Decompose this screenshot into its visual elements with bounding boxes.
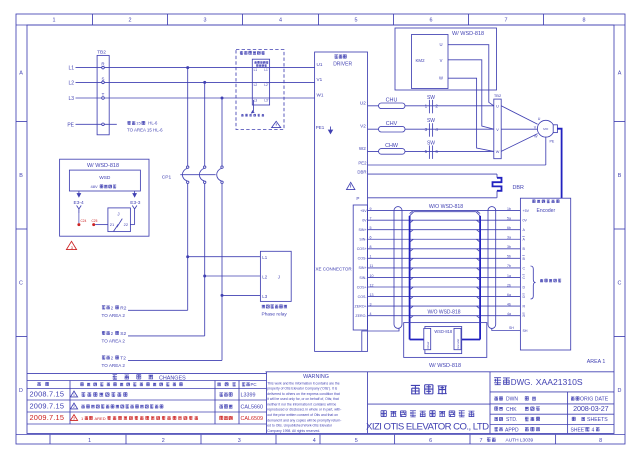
svg-text:CP1: CP1 bbox=[162, 174, 172, 180]
svg-text:CHV: CHV bbox=[386, 121, 398, 127]
optional line filter (dashed option box) bbox=[236, 50, 284, 130]
wire KM2 U to TB2 bbox=[448, 45, 494, 106]
svg-text:8: 8 bbox=[599, 438, 602, 444]
revision marker 3 (red triangle) bbox=[66, 241, 76, 249]
svg-text:1: 1 bbox=[81, 416, 84, 421]
svg-text:4b: 4b bbox=[507, 302, 511, 306]
svg-text:L2: L2 bbox=[254, 83, 258, 87]
relay contact J (21-22) bbox=[108, 208, 130, 232]
svg-text:CAL5660: CAL5660 bbox=[241, 405, 263, 411]
svg-text:C: C bbox=[523, 266, 526, 270]
svg-text:2008-03-27: 2008-03-27 bbox=[573, 404, 608, 413]
wire tap to phase relay L1 bbox=[186, 255, 189, 258]
title block: drawing number XAA21310S bbox=[489, 372, 491, 434]
svg-text:5b: 5b bbox=[507, 255, 511, 259]
svg-text:2: 2 bbox=[73, 405, 75, 409]
svg-text:WARNING: WARNING bbox=[303, 374, 329, 380]
svg-text:0V: 0V bbox=[523, 219, 528, 223]
svg-text:SIN-: SIN- bbox=[359, 238, 367, 242]
svg-text:B: B bbox=[618, 173, 622, 179]
svg-text:4: 4 bbox=[279, 18, 282, 24]
svg-text:1: 1 bbox=[88, 438, 91, 444]
net S2 to area 2 bbox=[128, 335, 205, 337]
svg-text:demand it and any copies will: demand it and any copies will be promptl… bbox=[267, 418, 341, 422]
wire SH (shield) to encoder bbox=[492, 328, 521, 330]
svg-text:KM2: KM2 bbox=[416, 58, 426, 63]
svg-text:2: 2 bbox=[111, 305, 114, 310]
svg-text:DBR: DBR bbox=[513, 185, 524, 191]
svg-text:W/O WSD-818: W/O WSD-818 bbox=[429, 204, 463, 210]
svg-text:SIN-: SIN- bbox=[359, 276, 367, 280]
svg-text:DWN: DWN bbox=[506, 397, 518, 403]
plug symbols E3-4 E3-3 bbox=[77, 206, 82, 214]
W/ WSD-818 option box (KM2) bbox=[395, 28, 497, 90]
svg-text:C: C bbox=[523, 276, 526, 280]
svg-text:SH: SH bbox=[509, 326, 514, 330]
svg-text:B: B bbox=[523, 247, 526, 251]
connector WSD-818 (option) bbox=[404, 323, 487, 358]
svg-text:2b: 2b bbox=[507, 283, 511, 287]
svg-text:L3: L3 bbox=[254, 99, 258, 103]
CP1 linkage bar bbox=[180, 174, 215, 176]
svg-text:+5V: +5V bbox=[360, 209, 367, 213]
svg-text:CHU: CHU bbox=[386, 97, 398, 103]
svg-text:B: B bbox=[19, 173, 23, 179]
net T2 to area 2 bbox=[128, 359, 222, 361]
cable sheath (left) bbox=[394, 207, 402, 329]
svg-text:DBR: DBR bbox=[357, 169, 366, 174]
svg-text:Encoder: Encoder bbox=[537, 208, 556, 214]
svg-text:V: V bbox=[440, 58, 443, 63]
svg-text:5: 5 bbox=[355, 18, 358, 24]
svg-text:WSD-818: WSD-818 bbox=[434, 329, 452, 334]
svg-text:COS-: COS- bbox=[358, 295, 368, 299]
svg-text:ZERO+: ZERO+ bbox=[355, 304, 367, 308]
svg-text:6: 6 bbox=[435, 149, 438, 154]
svg-text:4: 4 bbox=[435, 127, 438, 132]
svg-text:B: B bbox=[523, 257, 526, 261]
svg-text:E3-3: E3-3 bbox=[130, 200, 140, 206]
phase relay J bbox=[260, 251, 291, 301]
svg-text:CAL6509: CAL6509 bbox=[241, 416, 263, 422]
svg-text:PE2: PE2 bbox=[358, 161, 367, 166]
svg-text:XAA21310S: XAA21310S bbox=[536, 377, 583, 387]
warning triangle (filter) bbox=[272, 121, 281, 127]
svg-text:C24: C24 bbox=[81, 219, 87, 223]
svg-text:STD.: STD. bbox=[506, 417, 517, 423]
svg-text:WSD: WSD bbox=[99, 175, 111, 181]
svg-text:W: W bbox=[439, 76, 443, 81]
signal arrows to E3-4 / E3-3 bbox=[78, 191, 80, 195]
svg-text:TO AREA 15 HL-6: TO AREA 15 HL-6 bbox=[127, 127, 163, 132]
svg-text:U: U bbox=[538, 117, 541, 121]
svg-text:reproduced or disclosed, in wh: reproduced or disclosed, in whole or in … bbox=[267, 408, 341, 412]
svg-text:2009.7.15: 2009.7.15 bbox=[30, 413, 65, 422]
svg-text:W/ WSD-818: W/ WSD-818 bbox=[87, 163, 119, 169]
svg-text:out the prior written consent: out the prior written consent of Otis an… bbox=[267, 413, 338, 417]
svg-text:TO AREA 2: TO AREA 2 bbox=[102, 313, 126, 318]
svg-text:6a: 6a bbox=[507, 293, 511, 297]
wire motor PE bbox=[545, 137, 547, 165]
svg-text:P: P bbox=[356, 196, 359, 201]
braking resistor DBR bbox=[496, 174, 498, 178]
svg-text:C: C bbox=[19, 281, 23, 287]
svg-text:COS-: COS- bbox=[358, 257, 368, 261]
svg-text:2: 2 bbox=[111, 331, 114, 336]
svg-text:E3-4: E3-4 bbox=[74, 200, 84, 206]
svg-text:3: 3 bbox=[238, 438, 241, 444]
svg-text:2008.7.15: 2008.7.15 bbox=[30, 390, 65, 399]
svg-text:2: 2 bbox=[162, 438, 165, 444]
W/ WSD-818 option box bbox=[60, 159, 149, 236]
svg-text:C25: C25 bbox=[92, 219, 98, 223]
svg-text:SW: SW bbox=[427, 140, 435, 146]
svg-text:L1: L1 bbox=[262, 255, 267, 260]
svg-text:CHANGES: CHANGES bbox=[159, 376, 186, 382]
svg-text:U: U bbox=[496, 104, 499, 108]
svg-text:3b: 3b bbox=[507, 245, 511, 249]
WSD unit (48V charge signal) bbox=[69, 170, 140, 191]
svg-text:5: 5 bbox=[355, 438, 358, 444]
svg-text:D: D bbox=[19, 388, 23, 394]
svg-text:22: 22 bbox=[124, 222, 129, 227]
svg-text:PE1: PE1 bbox=[316, 125, 325, 130]
encoder (sin/cos) bbox=[520, 198, 570, 350]
connector XE (encoder connector) bbox=[353, 205, 367, 330]
wire tap to phase relay L2 bbox=[203, 275, 206, 278]
svg-text:L2': L2' bbox=[264, 83, 269, 87]
contactor CP1 pole 2 and wire bbox=[204, 82, 206, 165]
svg-text:TO AREA 2: TO AREA 2 bbox=[102, 339, 126, 344]
svg-text:PC: PC bbox=[251, 382, 257, 387]
encoder extension cable W/O WSD-818 (shield box) bbox=[414, 211, 476, 213]
changes table bbox=[27, 372, 267, 374]
inverter drive U1 (DRIVER) bbox=[315, 52, 368, 351]
svg-text:L2: L2 bbox=[262, 275, 267, 280]
svg-text:HL-6: HL-6 bbox=[148, 121, 158, 126]
svg-text:COS+: COS+ bbox=[357, 247, 367, 251]
svg-text:COS+: COS+ bbox=[357, 285, 367, 289]
svg-text:D: D bbox=[523, 295, 526, 299]
encoder cable from motor (shielded) bbox=[557, 129, 561, 199]
svg-text:4: 4 bbox=[592, 427, 595, 433]
svg-text:W2: W2 bbox=[359, 146, 366, 151]
motor MO bbox=[537, 120, 554, 137]
svg-text:R: R bbox=[523, 305, 526, 309]
svg-text:SHEETS: SHEETS bbox=[587, 417, 608, 423]
svg-text:W/O WSD-818: W/O WSD-818 bbox=[427, 309, 460, 315]
svg-text:delivered to others on the exp: delivered to others on the express condi… bbox=[267, 392, 340, 396]
wire KM2 V to TB2 bbox=[448, 60, 494, 129]
warning triangle (driver) bbox=[347, 182, 355, 189]
svg-text:PE: PE bbox=[550, 140, 555, 144]
svg-text:L3399: L3399 bbox=[241, 393, 256, 399]
svg-text:W1: W1 bbox=[317, 93, 324, 98]
svg-text:L1: L1 bbox=[68, 66, 74, 72]
svg-text:SW: SW bbox=[427, 118, 435, 124]
svg-text:L3: L3 bbox=[68, 96, 74, 102]
brace: pins C C D D for positioning bbox=[531, 266, 536, 299]
svg-text:ZERO-: ZERO- bbox=[355, 314, 367, 318]
svg-text:property of Otis Elevator Comp: property of Otis Elevator Company ('Otis… bbox=[267, 387, 337, 391]
contactor CP1 pole 3 and wire bbox=[221, 98, 223, 166]
svg-text:8: 8 bbox=[583, 18, 586, 24]
svg-text:7b: 7b bbox=[507, 264, 511, 268]
svg-text:6: 6 bbox=[429, 438, 432, 444]
svg-text:A: A bbox=[618, 71, 622, 77]
svg-text:5: 5 bbox=[425, 149, 428, 154]
svg-text:neither it nor the information: neither it nor the information it contai… bbox=[267, 402, 336, 406]
svg-text:R: R bbox=[101, 62, 104, 67]
svg-text:SH: SH bbox=[523, 329, 528, 333]
svg-text:3: 3 bbox=[204, 18, 207, 24]
wire tap to phase relay L3 bbox=[221, 294, 224, 297]
svg-text:APPD: APPD bbox=[505, 427, 519, 433]
filter ground lead bbox=[252, 100, 254, 113]
svg-text:2009.7.15: 2009.7.15 bbox=[30, 402, 65, 411]
svg-text:J: J bbox=[278, 275, 280, 280]
net R2 to area 2 bbox=[128, 309, 188, 311]
svg-text:C: C bbox=[618, 281, 622, 287]
svg-text:L3: L3 bbox=[262, 294, 267, 299]
svg-text:XIZI OTIS ELEVATOR CO., LTD: XIZI OTIS ELEVATOR CO., LTD bbox=[366, 421, 489, 432]
svg-text:V: V bbox=[496, 128, 499, 132]
wire KM2 W to TB2 bbox=[448, 78, 494, 151]
title block: drawing title and company bbox=[368, 403, 491, 405]
svg-text:3: 3 bbox=[73, 417, 75, 421]
svg-text:TO AREA 2: TO AREA 2 bbox=[102, 363, 126, 368]
svg-text:7: 7 bbox=[480, 438, 483, 444]
EMC filter FLT L1-L3 pass-through bbox=[252, 59, 269, 105]
svg-text:SW: SW bbox=[427, 95, 435, 101]
svg-text:4a: 4a bbox=[507, 312, 511, 316]
svg-text:TB2: TB2 bbox=[97, 50, 106, 56]
svg-text:TB2: TB2 bbox=[494, 93, 502, 98]
svg-text:2: 2 bbox=[111, 355, 114, 360]
svg-text:3: 3 bbox=[425, 127, 428, 132]
svg-text:4: 4 bbox=[313, 438, 316, 444]
svg-text:W/ WSD-818: W/ WSD-818 bbox=[452, 31, 484, 37]
svg-text:MO: MO bbox=[543, 127, 549, 131]
svg-text:L2: L2 bbox=[68, 80, 74, 86]
svg-text:ORIG DATE: ORIG DATE bbox=[580, 397, 609, 403]
svg-text:1a: 1a bbox=[507, 274, 511, 278]
warning notice block bbox=[266, 371, 615, 373]
svg-text:ARED: ARED bbox=[95, 416, 106, 421]
svg-text:6: 6 bbox=[430, 18, 433, 24]
svg-text:L1': L1' bbox=[264, 68, 269, 72]
svg-text:Phase relay: Phase relay bbox=[262, 312, 288, 318]
svg-text:S2: S2 bbox=[120, 331, 126, 337]
wires TB2 to motor U V W bbox=[501, 106, 537, 125]
svg-text:L3': L3' bbox=[264, 99, 269, 103]
svg-text:V2: V2 bbox=[360, 124, 366, 129]
svg-text:U: U bbox=[439, 42, 442, 47]
cable sheath (right) bbox=[488, 207, 496, 329]
svg-text:DWG.: DWG. bbox=[511, 378, 533, 387]
svg-text:+5V: +5V bbox=[523, 209, 530, 213]
svg-text:1: 1 bbox=[53, 18, 56, 24]
svg-text:DRIVER: DRIVER bbox=[333, 61, 352, 67]
shield drain wire to driver bbox=[362, 328, 399, 351]
svg-text:U2: U2 bbox=[360, 100, 366, 105]
svg-text:U1: U1 bbox=[317, 62, 323, 67]
svg-text:0V: 0V bbox=[362, 218, 367, 222]
svg-text:3a: 3a bbox=[507, 236, 511, 240]
svg-text:W/ WSD-818: W/ WSD-818 bbox=[429, 363, 461, 369]
svg-text:J: J bbox=[117, 212, 119, 217]
svg-text:CHW: CHW bbox=[385, 143, 399, 149]
svg-text:L1: L1 bbox=[254, 68, 258, 72]
svg-text:2: 2 bbox=[435, 103, 438, 108]
svg-text:6b: 6b bbox=[507, 226, 511, 230]
contactor KM2 bbox=[412, 35, 449, 89]
svg-text:V1: V1 bbox=[317, 77, 323, 82]
svg-text:Driver: Driver bbox=[426, 341, 430, 348]
svg-text:48V: 48V bbox=[91, 184, 98, 189]
svg-text:AUTH L3039: AUTH L3039 bbox=[506, 438, 534, 444]
svg-text:2: 2 bbox=[129, 18, 132, 24]
svg-text:A: A bbox=[523, 228, 526, 232]
svg-text:SHEET: SHEET bbox=[571, 427, 588, 433]
svg-text:A: A bbox=[19, 71, 23, 77]
svg-text:SIN+: SIN+ bbox=[359, 266, 367, 270]
svg-text:This work and the information: This work and the information it contain… bbox=[267, 381, 340, 385]
svg-text:CHK: CHK bbox=[506, 407, 517, 413]
net PE to area 15 HL-6 bbox=[127, 121, 130, 124]
svg-text:1: 1 bbox=[425, 103, 428, 108]
svg-text:SIN+: SIN+ bbox=[359, 228, 367, 232]
svg-text:T: T bbox=[102, 92, 105, 97]
svg-text:PE: PE bbox=[67, 122, 74, 128]
svg-text:W: W bbox=[534, 134, 538, 138]
contactor CP1 pole 1 and wire bbox=[187, 68, 189, 166]
svg-text:5a: 5a bbox=[507, 216, 511, 220]
svg-text:Encoder: Encoder bbox=[456, 339, 460, 349]
svg-text:ed to Otis. Unpublished W: ed to Otis. Unpublished Work-Otis Elevat… bbox=[267, 424, 333, 428]
svg-text:R2: R2 bbox=[120, 306, 126, 312]
svg-text:AREA 1: AREA 1 bbox=[587, 359, 606, 365]
svg-text:A: A bbox=[523, 238, 526, 242]
svg-text:R: R bbox=[523, 314, 526, 318]
svg-text:T2: T2 bbox=[120, 356, 126, 362]
svg-text:XE CONNECTOR: XE CONNECTOR bbox=[316, 266, 353, 271]
svg-text:D: D bbox=[523, 285, 526, 289]
svg-text:1: 1 bbox=[73, 393, 75, 397]
svg-text:it will be used only for, or o: it will be used only for, or on behalf o… bbox=[267, 397, 339, 401]
junction nodes on L1 L2 L3 buses bbox=[186, 66, 189, 69]
svg-text:21: 21 bbox=[110, 222, 115, 227]
svg-text:15: 15 bbox=[136, 121, 141, 126]
svg-text:Company 1998. All rights rese: Company 1998. All rights reserved. bbox=[267, 429, 320, 433]
svg-text:W: W bbox=[496, 150, 500, 154]
svg-text:1b: 1b bbox=[507, 207, 511, 211]
svg-text:3: 3 bbox=[71, 246, 73, 250]
svg-text:S: S bbox=[102, 76, 105, 81]
svg-text:D: D bbox=[618, 388, 622, 394]
svg-text:7: 7 bbox=[505, 18, 508, 24]
